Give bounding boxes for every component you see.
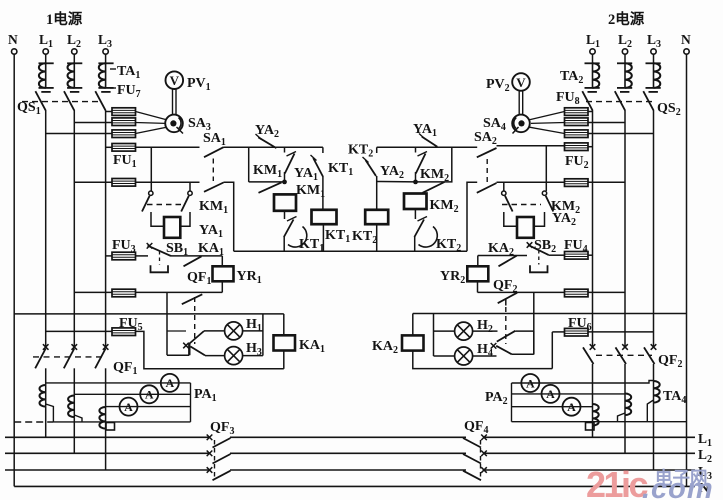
contact KA2 blade <box>499 256 517 267</box>
label 2-power-source <box>608 10 645 28</box>
terminal L2 left <box>72 49 77 54</box>
svg-text:2电源: 2电源 <box>608 10 645 28</box>
wire corner into YR2 <box>477 256 479 267</box>
terminal L3 right <box>651 49 656 54</box>
wire fan f1 to SA3 <box>136 112 167 120</box>
wire KT1 delay to rail <box>283 236 285 251</box>
tie breaker QF4 pole2 <box>463 451 487 464</box>
wire neutral bus314 right <box>413 313 687 315</box>
fuse f292 right <box>565 289 589 297</box>
terminal L3 left <box>103 49 108 54</box>
coil YA2 <box>517 217 534 238</box>
fuse FU1 left <box>112 144 136 152</box>
QF4 linkage dashed <box>480 440 482 477</box>
watermark 21ic <box>586 464 648 500</box>
wire KA1 branch top <box>283 314 285 335</box>
switch SA1 contact 1 blade <box>204 147 224 157</box>
transformer TA2 coil on L3 <box>646 63 661 92</box>
label FU5 <box>119 316 143 333</box>
wire corner into YR1 <box>221 256 223 266</box>
label YR2 <box>440 269 465 286</box>
wire H3 right <box>243 355 263 357</box>
wire KA1 branch bottom <box>283 351 285 369</box>
bus L1 bottom mid segment <box>230 436 466 438</box>
wire H1 left <box>204 330 225 332</box>
selector blade to H3 <box>191 347 206 356</box>
wire CT return right <box>512 421 687 423</box>
wire bus147 center-right <box>377 146 478 148</box>
wire branch down at 248.7 <box>248 147 250 182</box>
label KA1 coil <box>299 338 325 355</box>
transformer TA1 coil on L3 <box>98 63 113 92</box>
CT coil on L2 left <box>68 396 74 418</box>
wire L1 left main vertical <box>45 110 47 347</box>
wire SB2 to FU4 <box>549 254 565 256</box>
timer KT2 coil <box>365 210 388 224</box>
button SB2 blade <box>527 242 549 255</box>
wire L1 below QF2 <box>592 364 594 404</box>
label QF1 main <box>113 360 137 377</box>
breaker QF1 pole2 <box>64 344 77 368</box>
label KM1 NC <box>253 163 282 180</box>
CT coil on L2 right <box>625 394 631 416</box>
wire L2 right main vertical <box>624 110 626 347</box>
bus L1 bottom right segment <box>484 436 695 438</box>
label KM2 coil <box>430 198 459 215</box>
contact QF1 aux blade <box>182 294 203 304</box>
wire selector bottom <box>167 354 189 356</box>
CT-L2r secondary bottom lead <box>618 413 626 422</box>
wire H4 connector to riser <box>512 353 534 355</box>
wire L3 right stub <box>653 54 655 63</box>
wire stub aux left hook right side <box>503 182 505 191</box>
selector common bar <box>183 343 189 356</box>
wire L3r to bus3 <box>653 403 655 470</box>
switch SA1 contact 2 blade <box>204 183 224 192</box>
CT1 secondary bottom lead <box>46 404 54 422</box>
label KA2 coil <box>372 339 398 356</box>
wire L3 left main vertical <box>105 110 107 347</box>
wire ammeter line 2 <box>74 393 190 395</box>
label KT1 coil <box>325 228 350 245</box>
wire f5r to L2 <box>588 181 625 183</box>
wire L2 to f292 <box>74 291 112 293</box>
transformer TA2 coil on L2 <box>617 63 632 92</box>
label KT2 coil <box>352 229 377 246</box>
SA2 linkage dashed <box>486 159 488 182</box>
node N (right) label <box>681 32 691 47</box>
wire L3 below QF1 <box>105 368 107 407</box>
bus L2 bottom left segment <box>5 452 210 454</box>
wire KT2 coil branch <box>376 147 378 210</box>
KM2 aux linkage dashed <box>502 204 541 206</box>
QF1 aux linkage dashed <box>194 297 196 344</box>
wire fan f1r to SA4 <box>530 112 565 120</box>
label FU8 <box>556 90 580 107</box>
wire H1 right <box>243 330 263 332</box>
fuse f3 right stack <box>565 130 589 138</box>
wire bus292 <box>136 291 223 293</box>
fuse f292 left <box>112 289 136 297</box>
contactor KM1 coil <box>274 194 296 210</box>
label KM1 self <box>296 183 325 200</box>
wire KT1 coil branch <box>322 147 324 210</box>
wire lamps-left to neutral right <box>433 314 435 357</box>
label KA2 <box>488 241 514 258</box>
label SA2 <box>474 130 497 147</box>
fuse FU6 <box>565 328 589 336</box>
label SB2 <box>534 238 556 255</box>
label KT2 contact <box>348 143 373 160</box>
wire bus182 stub to aux right hook <box>189 182 191 191</box>
fuse f5 left <box>112 179 136 187</box>
switch QS2 pole 3 blade <box>643 91 653 110</box>
lamp H4 <box>455 347 473 365</box>
wire neutral bus314 left <box>14 313 284 315</box>
selector blade H4 right <box>491 343 512 354</box>
QF3 linkage dashed <box>214 440 216 477</box>
fuse f1 left stack <box>112 108 136 116</box>
contact KM2 aux right hook <box>542 191 546 195</box>
wire bus256 FU3 to SB1 <box>136 255 149 257</box>
lamp H1 <box>225 322 243 340</box>
wire YR2 bottom <box>477 281 479 292</box>
wire vertical 292-to-355 <box>166 292 168 355</box>
label bus N <box>699 480 709 495</box>
label bus L1 <box>698 431 712 449</box>
QF2 linkage dashed <box>596 354 652 356</box>
tie breaker QF4 pole1 <box>463 435 487 448</box>
node L3 (right) label <box>647 32 661 50</box>
voltmeter PV2 <box>512 73 530 91</box>
label QF4 <box>464 419 488 436</box>
node junction dot right <box>413 180 418 185</box>
bus N bottom <box>14 485 695 487</box>
label YA1 right of NC <box>294 166 318 183</box>
label H3 <box>246 341 262 358</box>
wire FU6 to L3 <box>588 331 654 333</box>
TA4 secondary bottom lead <box>647 400 653 422</box>
wire L2 right stub <box>624 54 626 63</box>
wire bus182 f5 to SA1 <box>136 181 200 183</box>
relay YR2 coil <box>467 266 488 281</box>
wire PV1-SA3 double stem <box>173 89 177 115</box>
breaker QF1 pole1 <box>35 344 48 368</box>
wire L3 to FU1 <box>106 146 112 148</box>
label FU6 <box>568 316 592 333</box>
wire KM1 coil to delay <box>284 211 286 219</box>
bus L2 bottom mid segment <box>230 452 466 454</box>
terminal L2 right <box>622 49 627 54</box>
wire KA2 branch top <box>412 314 414 336</box>
label KT1 contact <box>328 161 353 178</box>
label KT1 delay <box>299 237 324 254</box>
fuse FU2-f4 <box>565 143 589 151</box>
wire L2 below QF1 <box>73 368 75 395</box>
QS1 linkage dashed <box>22 101 100 103</box>
wire H wires join right <box>533 331 535 354</box>
wire KM2 aux right to YA2 <box>534 212 545 226</box>
wire H2 connector to riser <box>515 330 534 332</box>
label KM1 aux <box>199 199 228 216</box>
svg-text:V: V <box>516 75 526 90</box>
fuse f2 left stack <box>112 118 136 126</box>
breaker QF2 pole2 <box>616 344 628 364</box>
wire FU6 riser <box>551 332 553 369</box>
wire L1 right main vertical <box>592 110 594 347</box>
label FU3 <box>112 238 136 255</box>
node L2 (right) label <box>618 32 632 50</box>
transformer TA1 coil on L1 <box>39 63 54 92</box>
KM1 aux linkage dashed <box>147 204 184 206</box>
node L1 (left) label <box>39 32 53 50</box>
contact KM1 aux left blade <box>142 196 150 212</box>
selector switch SA4 <box>512 115 530 134</box>
wire vertical link 546 <box>545 146 547 191</box>
node junction dot left <box>282 180 287 185</box>
breaker QF2 pole1 <box>583 344 595 364</box>
wire FU6 left stub <box>552 331 564 333</box>
contact YA2 blade <box>256 134 277 148</box>
QS2 linkage dashed <box>586 101 655 103</box>
wire KT2 delay to rail <box>414 236 416 251</box>
label FU4 <box>564 238 588 255</box>
wire ammeter line 3 <box>106 406 191 408</box>
voltmeter PV1 <box>166 71 184 89</box>
relay KA2 coil <box>402 335 424 350</box>
selector blade H2 right <box>497 331 516 342</box>
svg-text:N: N <box>681 32 691 47</box>
wire KT2 coil to rail <box>376 224 378 251</box>
wire f292r to L2 <box>588 291 625 293</box>
ammeter PA2 top <box>521 374 539 392</box>
terminal N left <box>12 49 17 54</box>
button SB2 actuator <box>530 265 548 272</box>
QF1 linkage dashed <box>33 356 103 358</box>
label KM2 NC <box>420 167 449 184</box>
label KA1 <box>198 241 224 258</box>
wire L3 left stub to coil <box>105 54 107 63</box>
fuse f3 left stack <box>112 130 136 138</box>
wire L1 to FU5 <box>46 330 112 332</box>
wire L1 below QF1 <box>45 368 47 385</box>
ammeter PA2 bottom <box>563 398 581 416</box>
contact KM2 NC on 415.5 <box>416 147 428 182</box>
bus L3 bottom left segment <box>5 469 210 471</box>
tie breaker QF3 pole1 <box>207 435 231 448</box>
wire right rail riser <box>467 182 477 251</box>
switch QS2 pole 2 blade <box>615 91 625 110</box>
CT coil on L1 left <box>39 385 45 407</box>
wire CT return left dashed <box>14 421 53 423</box>
wire KT1 coil to rail <box>322 224 324 251</box>
label SA4 <box>483 116 506 133</box>
wire L2r to bus2 <box>624 415 626 453</box>
wire ammeter right line 3 <box>512 406 593 408</box>
wire KM2 aux left to YA2 <box>504 212 517 226</box>
coil YA1 <box>164 217 180 238</box>
contact KM1 aux left hook <box>149 191 153 195</box>
contact KM2 aux left blade <box>505 196 513 212</box>
wire PA2 loop left edge <box>511 383 513 422</box>
wire L3 right main vertical <box>653 110 655 347</box>
watermark dot-com <box>642 473 714 500</box>
relay KA1 coil <box>274 335 296 350</box>
wire bus147 center-left <box>224 146 323 148</box>
wire KM1 aux left to YA1 <box>151 212 164 226</box>
label H4 <box>477 342 493 359</box>
label KT2 delay <box>436 237 461 254</box>
wire ammeter right line 1 <box>512 381 654 384</box>
wire N right vertical <box>686 54 688 486</box>
selector switch SA3 <box>165 115 183 134</box>
wire L2 to bus2 <box>73 417 75 453</box>
SB2 linkage dashed <box>538 250 540 265</box>
CT coil on L1 right <box>593 404 599 426</box>
wire L1 left stub to coil <box>45 54 47 63</box>
fuse FU3 <box>112 252 136 260</box>
wire CT return left <box>53 421 190 423</box>
label SB1 <box>166 241 188 258</box>
wire bus147 FU1 to SA1 <box>136 146 200 148</box>
wire bus292 right <box>478 291 565 293</box>
wire L3 to f1 <box>106 111 112 113</box>
bus L1 bottom left segment <box>5 436 210 438</box>
wire ammeter line 1 <box>46 382 191 384</box>
wire KA2 branch bottom <box>413 351 553 369</box>
contact KT2 blade <box>363 157 377 176</box>
label QF2 aux <box>493 278 517 295</box>
transformer TA1 coil on L2 <box>67 63 82 92</box>
bus L3 bottom mid segment <box>230 469 466 471</box>
wire KM2 coil to delay <box>414 209 416 219</box>
CT2 secondary bottom lead <box>74 415 82 422</box>
breaker QF1 pole3 <box>95 344 108 368</box>
selector blade to H1 <box>190 331 205 344</box>
wire SA2-1 to FU2 <box>497 145 565 147</box>
label QS2 <box>657 101 681 118</box>
label bus L2 <box>698 447 712 465</box>
label H2 <box>477 318 493 335</box>
wire H2 right <box>473 330 498 332</box>
label YA2 coil <box>552 211 576 228</box>
wire f1r to L1 <box>588 111 593 113</box>
label FU7 <box>110 83 141 100</box>
switch SA2 contact 1 blade <box>477 148 497 157</box>
wire fan f2r to SA4 <box>531 122 565 125</box>
label QF1 aux <box>187 270 211 287</box>
switch SA2 contact 2 blade <box>477 183 497 193</box>
lamp H3 <box>225 347 243 365</box>
ammeter PA1 bottom <box>120 398 138 416</box>
switch QS2 pole 1 blade <box>582 91 592 110</box>
svg-text:V: V <box>170 73 180 88</box>
bus L2 bottom right segment <box>484 452 695 454</box>
wire control rail <box>234 250 467 252</box>
breaker QF2 pole3 <box>644 344 656 364</box>
wire PV2-SA4 double stem <box>519 91 523 115</box>
QF2 aux linkage dashed <box>505 307 507 344</box>
ammeter PA1 mid <box>140 385 158 403</box>
wire vertical f147-f182 link <box>150 147 152 191</box>
CT secondary box right <box>586 423 595 431</box>
node L3 (left) label <box>98 32 112 50</box>
contact KT2 delay <box>414 217 437 248</box>
wire L1 to f3 <box>46 133 112 135</box>
label PV2 <box>486 77 510 94</box>
label bus L3 <box>698 464 712 482</box>
wire N left vertical <box>13 54 15 486</box>
switch QS1 pole 1 blade <box>35 91 45 110</box>
label TA2 <box>560 69 583 86</box>
terminal L1 right <box>590 49 595 54</box>
label SA3 <box>188 116 211 133</box>
node L1 (right) label <box>586 32 600 50</box>
switch QS1 pole 3 blade <box>95 91 105 110</box>
contact KM1 aux right hook <box>188 191 192 195</box>
contact KM2 self blade <box>423 182 445 193</box>
wire L2 left stub to coil <box>73 54 75 63</box>
contact KT1 delay <box>284 217 307 248</box>
wire FU5 to lamp loop <box>136 331 284 368</box>
bus L3 bottom right segment <box>484 469 695 471</box>
CT3 secondary box <box>106 423 115 431</box>
switch QS1 pole 2 blade <box>64 91 74 110</box>
label YA1 contact right <box>413 122 437 139</box>
contact QF2 aux blade <box>498 293 518 306</box>
wire H4 left <box>434 355 455 357</box>
wire lamps to neutral <box>262 314 264 356</box>
CT coil on L3 left <box>99 407 105 429</box>
label TA4 <box>663 389 686 406</box>
transformer TA2 coil on L1 <box>585 63 600 92</box>
wire 451.8 drop <box>416 147 452 182</box>
wire H3 left <box>205 355 225 357</box>
label H1 <box>246 317 262 334</box>
wire H2 left <box>434 330 455 332</box>
wire f3r to L3 <box>588 133 654 135</box>
relay YR1 coil <box>213 266 234 281</box>
wire bus255 right <box>478 255 527 257</box>
wire 248.7 to junction <box>249 181 285 183</box>
svg-text:1电源: 1电源 <box>46 10 83 28</box>
label KM2 aux <box>551 199 580 216</box>
label FU2 <box>565 154 589 171</box>
label YR1 <box>237 269 262 286</box>
wire L3 below QF2 <box>653 364 655 381</box>
fuse f2 right stack <box>565 118 589 126</box>
tie breaker QF4 pole3 <box>463 467 487 480</box>
label FU1 <box>113 153 137 170</box>
label PV1 <box>187 76 211 93</box>
label QF2 main <box>658 353 682 370</box>
label SA1 <box>203 131 226 148</box>
contact KM2 aux left hook <box>502 191 506 195</box>
wire KM1 aux right to YA1 <box>180 212 190 226</box>
SA1 linkage dashed <box>212 159 214 182</box>
timer KT1 coil <box>312 210 337 224</box>
label YA2 right of KT2 <box>380 164 404 181</box>
contact KM1 NC on 284.5 <box>285 147 297 182</box>
wire L1 right stub <box>592 54 594 63</box>
label PA2 <box>485 390 508 407</box>
svg-text:.com: .com <box>642 473 714 500</box>
wire L2 to f5 <box>74 181 112 183</box>
wire L2 below QF2 <box>624 364 626 394</box>
ammeter PA1 top <box>161 374 179 392</box>
wire L3 to FU3 <box>106 255 112 257</box>
wire KT2 node to junction right <box>377 181 416 183</box>
